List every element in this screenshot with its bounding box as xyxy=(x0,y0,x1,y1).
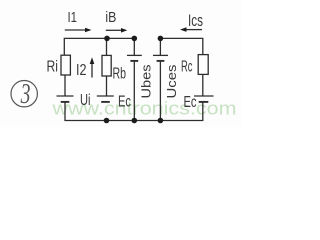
current arrow iB xyxy=(106,28,128,33)
svg-text:Ri: Ri xyxy=(47,59,59,76)
svg-text:Rc: Rc xyxy=(181,59,193,76)
svg-text:3: 3 xyxy=(20,78,31,110)
node junction bottom at Ec xyxy=(104,118,110,124)
current arrow I1 xyxy=(65,28,92,33)
battery Ui (short plate) xyxy=(61,101,70,103)
node junction top at Ubes xyxy=(132,36,138,42)
wire: bottom rail xyxy=(65,102,203,121)
wire: Ri bottom lead to battery Ui xyxy=(64,75,66,96)
wire: Uces column xyxy=(159,38,161,120)
wire: Rc bottom lead to battery Ec right xyxy=(202,74,204,96)
resistor Ri xyxy=(61,55,70,75)
wire: top rail right segment with corner down to Rc xyxy=(160,38,202,54)
wire: top rail left segment with corner down to Ri xyxy=(64,38,137,55)
svg-text:I1: I1 xyxy=(68,9,78,26)
battery Ec left (short plate) xyxy=(101,101,110,103)
node junction bottom at Ubes xyxy=(132,118,138,124)
wire: Ubes column xyxy=(133,38,135,120)
cell Uces (long plate) xyxy=(153,54,168,56)
svg-text:Ics: Ics xyxy=(188,11,203,30)
svg-text:Uces: Uces xyxy=(164,64,179,99)
wire: Rb bottom lead to battery Ec xyxy=(106,76,108,96)
node junction bottom at Uces xyxy=(158,118,164,124)
wire: Rb branch top lead xyxy=(106,38,108,55)
battery Ec right (long plate) xyxy=(194,95,214,97)
cell Uces (short plate) xyxy=(157,60,165,62)
svg-text:iB: iB xyxy=(105,9,116,26)
resistor Rb xyxy=(102,55,111,76)
svg-text:Ubes: Ubes xyxy=(139,64,154,99)
svg-text:Rb: Rb xyxy=(113,66,127,83)
svg-text:I2: I2 xyxy=(76,62,87,79)
current arrow I2 (points up) xyxy=(90,57,95,77)
node junction top at Uces xyxy=(158,36,164,42)
battery Ec left (long plate) xyxy=(97,95,114,97)
cell Ubes (short plate) xyxy=(130,60,138,62)
node junction top at Rb xyxy=(104,36,110,42)
svg-text:Ec: Ec xyxy=(184,94,197,111)
svg-text:Ec: Ec xyxy=(118,94,131,111)
current arrow Ics (points left) xyxy=(180,27,202,32)
cell Ubes (long plate) xyxy=(127,54,142,56)
figure number circle 3 xyxy=(11,81,37,107)
battery Ec right (short plate) xyxy=(199,101,209,103)
svg-text:Ui: Ui xyxy=(80,92,91,109)
battery Ui (long plate) xyxy=(57,95,74,97)
resistor Rc xyxy=(198,55,208,75)
